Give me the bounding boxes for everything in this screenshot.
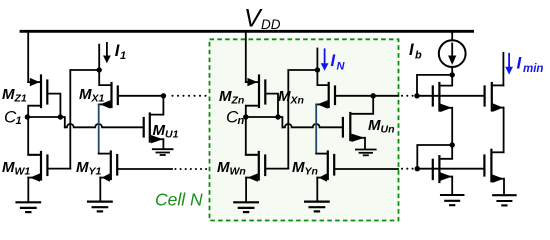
- input current I_N stub: [316, 49, 318, 71]
- svg-text:Yn: Yn: [305, 166, 318, 178]
- svg-text:M: M: [79, 86, 92, 103]
- wire M_Xn gate to box edge: [373, 95, 398, 97]
- label I_1: [115, 42, 126, 62]
- svg-text:b: b: [415, 50, 422, 62]
- transistor M_Xn: [316, 83, 373, 109]
- svg-text:N: N: [337, 61, 346, 73]
- svg-text:M: M: [368, 117, 381, 134]
- ground MD: [492, 195, 517, 205]
- label Cell N: [155, 189, 203, 209]
- transistor M_Wn: [246, 152, 288, 202]
- ground M_Wn: [233, 202, 259, 212]
- ground M_Un: [355, 150, 377, 156]
- label M_Yn: [292, 159, 318, 178]
- node I1 junction dot: [97, 67, 102, 72]
- svg-text:Y1: Y1: [89, 166, 102, 178]
- svg-text:M: M: [278, 88, 291, 105]
- transistor MB (lower mirror): [433, 145, 452, 195]
- label C_1: [4, 107, 22, 127]
- wire C1 rail down to M_W1 drain: [28, 117, 40, 155]
- wire VDD to Ib source: [451, 33, 453, 41]
- dotted Y-gate bus cell1 to CellN: [174, 168, 207, 170]
- output current I_min stub: [502, 53, 504, 86]
- current arrow I_min (blue): [505, 54, 513, 75]
- wire X-gate line to MC gate: [417, 95, 484, 97]
- svg-text:M: M: [153, 122, 166, 139]
- node MB drain dot: [450, 142, 455, 147]
- power rail VDD: [20, 30, 474, 33]
- wire VDD to M_Z1 source: [27, 33, 29, 83]
- label M_Zn: [219, 88, 244, 107]
- transistor M_Zn: [246, 76, 278, 118]
- wire I1 to M_W1 gate: [70, 70, 99, 169]
- label M_Wn: [217, 159, 246, 178]
- transistor M_Z1: [28, 76, 60, 118]
- dotted Y-gate bus CellN to output: [401, 168, 414, 170]
- ground MB: [440, 195, 465, 205]
- svg-text:M: M: [2, 86, 15, 103]
- transistor M_Y1: [99, 152, 172, 202]
- ground M_W1: [15, 202, 41, 212]
- svg-text:I: I: [409, 41, 414, 59]
- wire IN to M_Xn drain: [317, 70, 328, 85]
- wire Ib to MA drain: [451, 67, 453, 75]
- transistor M_X1: [99, 83, 164, 109]
- wire Cn to MUn gate bus: [278, 117, 342, 127]
- wire C1 node: [27, 116, 60, 118]
- label I_N (blue): [331, 52, 346, 73]
- node C1 junction dots: [25, 114, 63, 119]
- svg-text:U1: U1: [165, 129, 179, 141]
- current source Ib: [439, 40, 466, 67]
- wire M_X1 source down (navy): [98, 104, 100, 153]
- dotted X-gate bus CellN to output: [401, 95, 414, 97]
- ground M_U1: [152, 149, 174, 155]
- svg-text:Un: Un: [381, 124, 395, 136]
- svg-text:Z1: Z1: [14, 93, 27, 105]
- input current I_1 stub: [98, 45, 100, 70]
- node M_X1 gate junction dot: [161, 93, 166, 98]
- label C_n: [226, 107, 245, 127]
- transistor M_Un: [343, 96, 373, 149]
- wire Y-gate line to MD gate: [417, 168, 484, 170]
- Cell N dashed box: [210, 39, 399, 220]
- svg-text:DD: DD: [261, 17, 281, 32]
- label M_X1: [79, 86, 105, 105]
- wire C1 to MU1 gate bus: [60, 117, 142, 127]
- node Ib bottom dot: [450, 72, 455, 77]
- dotted X-gate bus cell1 to CellN: [171, 95, 206, 97]
- label VDD: [244, 5, 281, 33]
- svg-text:1: 1: [16, 115, 22, 127]
- label M_Y1: [76, 159, 102, 178]
- transistor MA (upper mirror): [433, 75, 452, 145]
- transistor M_U1: [144, 96, 164, 149]
- svg-text:min: min: [523, 63, 543, 75]
- transistor M_Yn: [316, 152, 398, 202]
- label M_Xn: [278, 88, 304, 107]
- transistor MD (output lower): [484, 150, 504, 195]
- wire Cn node: [246, 116, 278, 118]
- label M_W1: [2, 159, 30, 178]
- wire M_Xn source down (navy): [315, 104, 317, 153]
- label I_min (blue): [517, 54, 544, 76]
- label M_Z1: [2, 86, 27, 105]
- ground M_Yn: [304, 202, 330, 212]
- svg-text:M: M: [292, 159, 305, 176]
- node X-bus output dot: [414, 93, 419, 98]
- node Cn junction dots: [243, 114, 281, 119]
- node Y-bus output dot: [415, 166, 420, 171]
- current arrow I_1: [103, 43, 111, 63]
- ground M_Y1: [87, 202, 113, 212]
- svg-text:M: M: [217, 159, 230, 176]
- svg-text:M: M: [2, 159, 15, 176]
- svg-text:Cell N: Cell N: [155, 189, 203, 209]
- svg-text:n: n: [238, 115, 245, 127]
- svg-text:W1: W1: [15, 166, 31, 178]
- wire Ib node to X-bus: [417, 75, 452, 96]
- wire VDD to M_Zn source: [245, 33, 247, 83]
- svg-text:Wn: Wn: [230, 166, 246, 178]
- label M_U1: [153, 122, 179, 141]
- transistor M_W1: [28, 152, 70, 202]
- node IN junction dot: [315, 67, 320, 72]
- wire I1 to M_X1 drain: [99, 70, 111, 85]
- wire MB node to Y-bus: [417, 145, 452, 169]
- wire IN to M_Wn gate: [288, 70, 317, 169]
- label M_Un: [368, 117, 395, 136]
- transistor MC (output upper): [485, 83, 504, 152]
- svg-text:Zn: Zn: [231, 95, 245, 107]
- current arrow I_N (blue): [321, 49, 329, 71]
- svg-text:1: 1: [120, 50, 126, 62]
- wire Cn rail down to M_Wn drain: [246, 117, 258, 155]
- svg-text:Xn: Xn: [290, 95, 304, 107]
- node M_Xn gate junction dot: [371, 93, 376, 98]
- svg-text:M: M: [76, 159, 89, 176]
- svg-text:I: I: [331, 52, 336, 70]
- svg-text:X1: X1: [91, 93, 105, 105]
- svg-text:M: M: [219, 88, 232, 105]
- label I_b: [409, 41, 422, 62]
